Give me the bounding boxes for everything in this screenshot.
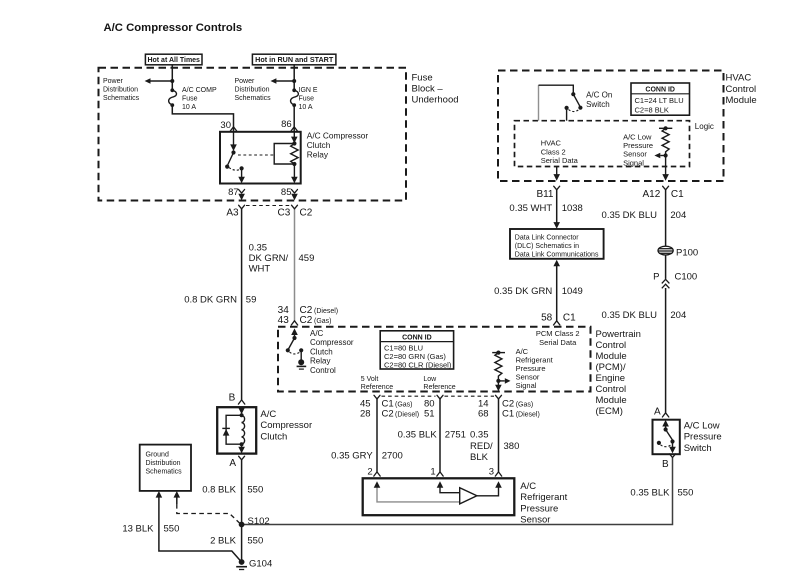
svg-text:Fuse: Fuse [299, 95, 315, 102]
svg-text:B: B [229, 393, 236, 404]
svg-text:A/C: A/C [520, 481, 536, 492]
svg-text:(PCM)/: (PCM)/ [596, 362, 626, 373]
svg-text:Data Link Connector: Data Link Connector [515, 235, 579, 242]
svg-text:459: 459 [299, 253, 315, 264]
svg-text:Control: Control [596, 340, 627, 351]
svg-text:550: 550 [247, 485, 263, 496]
svg-text:(ECM): (ECM) [596, 406, 623, 417]
svg-text:Clutch: Clutch [260, 431, 287, 442]
svg-text:C2: C2 [300, 208, 313, 219]
svg-text:Serial Data: Serial Data [539, 338, 577, 347]
svg-text:Hot in RUN and START: Hot in RUN and START [255, 55, 334, 64]
svg-text:C2=80 CLR (Diesel): C2=80 CLR (Diesel) [384, 361, 452, 370]
svg-text:Sensor: Sensor [520, 515, 550, 526]
svg-text:RED/: RED/ [470, 441, 493, 452]
svg-text:P100: P100 [676, 248, 698, 259]
svg-text:1038: 1038 [562, 203, 583, 214]
svg-text:DK GRN/: DK GRN/ [249, 253, 289, 264]
svg-text:Module: Module [726, 95, 757, 106]
svg-text:(Gas): (Gas) [314, 318, 332, 325]
svg-text:58: 58 [541, 313, 553, 324]
svg-text:87: 87 [228, 187, 239, 198]
svg-text:30: 30 [220, 120, 231, 131]
svg-text:A/C: A/C [260, 409, 276, 420]
svg-text:51: 51 [424, 409, 435, 420]
svg-text:C100: C100 [675, 272, 698, 283]
svg-text:Refrigerant: Refrigerant [520, 492, 567, 503]
svg-text:1049: 1049 [562, 286, 583, 297]
svg-text:0.35 BLK: 0.35 BLK [630, 488, 670, 499]
svg-text:550: 550 [164, 524, 180, 535]
svg-text:Clutch: Clutch [310, 347, 333, 356]
svg-text:550: 550 [247, 535, 263, 546]
svg-text:G104: G104 [249, 559, 272, 570]
svg-text:A: A [654, 406, 661, 417]
svg-text:0.35 WHT: 0.35 WHT [509, 203, 552, 214]
svg-text:Block –: Block – [412, 84, 444, 95]
svg-text:86: 86 [281, 119, 292, 130]
svg-text:S102: S102 [248, 516, 270, 527]
svg-text:A/C Compressor: A/C Compressor [307, 131, 369, 141]
svg-text:380: 380 [504, 441, 520, 452]
svg-text:IGN E: IGN E [299, 87, 318, 94]
svg-text:Powertrain: Powertrain [596, 329, 641, 340]
svg-text:Schematics: Schematics [146, 469, 183, 476]
svg-text:Data Link Communications: Data Link Communications [515, 252, 599, 259]
svg-text:Reference: Reference [423, 384, 455, 391]
svg-text:Logic: Logic [695, 122, 714, 131]
svg-text:P: P [653, 272, 659, 283]
svg-text:WHT: WHT [249, 264, 271, 275]
svg-text:10 A: 10 A [182, 104, 196, 111]
svg-text:68: 68 [478, 409, 489, 420]
svg-text:C1: C1 [671, 189, 684, 200]
svg-text:Pressure: Pressure [520, 503, 558, 514]
svg-text:28: 28 [360, 409, 371, 420]
svg-text:C2=8 BLK: C2=8 BLK [635, 106, 669, 115]
svg-text:Signal: Signal [623, 158, 644, 167]
svg-text:204: 204 [670, 310, 686, 321]
svg-text:Reference: Reference [361, 384, 393, 391]
svg-text:0.35: 0.35 [249, 243, 268, 254]
svg-text:A: A [229, 458, 236, 469]
svg-text:C1: C1 [502, 409, 514, 420]
svg-text:Compressor: Compressor [310, 338, 354, 347]
svg-text:550: 550 [678, 488, 694, 499]
svg-text:Control: Control [726, 84, 757, 95]
svg-text:A12: A12 [643, 189, 661, 200]
svg-text:Schematics: Schematics [235, 95, 272, 102]
svg-text:85: 85 [281, 187, 292, 198]
svg-text:Module: Module [596, 351, 627, 362]
svg-text:Power: Power [235, 78, 256, 85]
svg-text:Distribution: Distribution [235, 87, 270, 94]
svg-text:Ground: Ground [146, 452, 169, 459]
svg-text:C1: C1 [563, 313, 576, 324]
svg-text:CONN ID: CONN ID [402, 334, 432, 341]
svg-text:CONN ID: CONN ID [645, 87, 675, 94]
svg-text:43: 43 [278, 315, 290, 326]
svg-text:Control: Control [310, 366, 336, 375]
svg-text:A/C On: A/C On [586, 91, 612, 100]
svg-text:Relay: Relay [307, 150, 329, 160]
svg-text:A/C Compressor Controls: A/C Compressor Controls [104, 22, 243, 34]
svg-text:C3: C3 [278, 208, 291, 219]
svg-text:Distribution: Distribution [146, 460, 181, 467]
svg-text:C2: C2 [382, 409, 394, 420]
svg-text:A/C COMP: A/C COMP [182, 87, 217, 94]
svg-text:A/C: A/C [310, 329, 324, 338]
svg-text:Switch: Switch [684, 443, 712, 454]
svg-text:Compressor: Compressor [260, 420, 312, 431]
svg-text:(Gas): (Gas) [516, 402, 534, 409]
svg-text:2 BLK: 2 BLK [210, 535, 237, 546]
svg-text:(Gas): (Gas) [395, 402, 413, 409]
svg-text:2: 2 [367, 466, 372, 477]
svg-text:0.35 GRY: 0.35 GRY [331, 451, 373, 462]
svg-text:Signal: Signal [516, 381, 537, 390]
svg-text:Underhood: Underhood [412, 95, 459, 106]
svg-text:0.35 DK BLU: 0.35 DK BLU [602, 210, 658, 221]
svg-text:C2: C2 [300, 315, 313, 326]
svg-text:Clutch: Clutch [307, 140, 331, 150]
svg-text:0.8 BLK: 0.8 BLK [202, 485, 236, 496]
svg-text:1: 1 [430, 466, 435, 477]
svg-text:Power: Power [103, 78, 124, 85]
svg-text:Relay: Relay [310, 357, 330, 366]
svg-text:0.35 DK BLU: 0.35 DK BLU [602, 310, 658, 321]
svg-text:HVAC: HVAC [726, 73, 752, 84]
svg-text:Module: Module [596, 395, 627, 406]
svg-text:2700: 2700 [382, 451, 403, 462]
svg-text:C1=24 LT BLU: C1=24 LT BLU [635, 96, 684, 105]
svg-text:0.35: 0.35 [470, 430, 489, 441]
svg-text:5 Volt: 5 Volt [361, 376, 379, 383]
svg-text:BLK: BLK [470, 452, 489, 463]
svg-text:0.8 DK GRN: 0.8 DK GRN [184, 295, 237, 306]
svg-text:(DLC) Schematics in: (DLC) Schematics in [515, 243, 579, 250]
svg-text:B: B [662, 459, 669, 470]
svg-text:Fuse: Fuse [412, 73, 433, 84]
svg-text:Switch: Switch [586, 100, 610, 109]
svg-text:HVAC: HVAC [541, 139, 562, 148]
svg-text:A3: A3 [226, 208, 239, 219]
svg-text:Low: Low [423, 376, 437, 383]
svg-text:2751: 2751 [445, 430, 466, 441]
svg-text:Serial Data: Serial Data [541, 156, 579, 165]
svg-text:Fuse: Fuse [182, 95, 198, 102]
svg-text:B11: B11 [536, 189, 553, 200]
svg-text:3: 3 [489, 466, 494, 477]
svg-text:PCM Class 2: PCM Class 2 [536, 329, 580, 338]
svg-text:Pressure: Pressure [684, 432, 722, 443]
svg-text:A/C Low: A/C Low [684, 421, 720, 432]
svg-text:(Diesel): (Diesel) [516, 412, 540, 419]
svg-text:59: 59 [246, 295, 257, 306]
svg-text:Schematics: Schematics [103, 95, 140, 102]
svg-text:Engine: Engine [596, 373, 626, 384]
svg-text:13 BLK: 13 BLK [122, 524, 154, 535]
svg-text:(Diesel): (Diesel) [314, 308, 338, 315]
svg-text:0.35 BLK: 0.35 BLK [398, 430, 438, 441]
svg-text:Distribution: Distribution [103, 87, 138, 94]
svg-text:Class 2: Class 2 [541, 147, 566, 156]
svg-text:10 A: 10 A [299, 104, 313, 111]
svg-text:Hot at All Times: Hot at All Times [147, 57, 200, 64]
svg-text:0.35 DK GRN: 0.35 DK GRN [494, 286, 552, 297]
svg-text:Control: Control [596, 384, 627, 395]
svg-text:204: 204 [670, 210, 686, 221]
svg-text:(Diesel): (Diesel) [395, 412, 419, 419]
